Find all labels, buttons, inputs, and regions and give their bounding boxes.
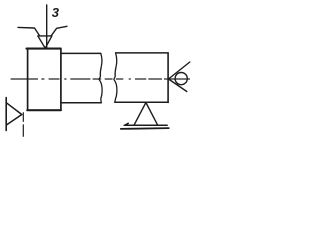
driver symbol axis dash-dot bbox=[22, 113, 24, 137]
break line right bbox=[114, 53, 117, 102]
clamp symbol left wing bbox=[18, 27, 40, 35]
centerline (shaft axis, dash-dot) bbox=[11, 78, 190, 80]
support base line 2 bbox=[121, 127, 169, 130]
clamp symbol right wing bbox=[51, 26, 67, 35]
support base line 1 bbox=[124, 123, 167, 125]
workpiece left section bottom edge emphasis bbox=[27, 109, 61, 111]
workpiece right section bottom edge (left of break) bbox=[61, 102, 101, 104]
driver symbol vertical bar (bottom left) bbox=[5, 98, 7, 131]
workpiece right section top edge (left of break) bbox=[61, 52, 101, 54]
workpiece right end face bbox=[167, 53, 169, 103]
driver symbol triangle bbox=[6, 103, 21, 125]
clamp force line bbox=[46, 5, 48, 48]
clamp symbol triangle bbox=[38, 36, 52, 48]
workpiece left section top edge emphasis bbox=[27, 48, 61, 50]
break line left bbox=[99, 53, 102, 102]
rotating center symbol circle bbox=[175, 73, 187, 85]
svg-text:3: 3 bbox=[52, 5, 60, 20]
workpiece right section bottom edge (right of break) bbox=[115, 101, 168, 103]
workpiece right section top edge (right of break) bbox=[116, 52, 169, 54]
rotating center symbol cone bbox=[169, 62, 190, 92]
workpiece left section (large diameter) bbox=[28, 48, 61, 110]
support triangle under right section bbox=[134, 103, 157, 125]
